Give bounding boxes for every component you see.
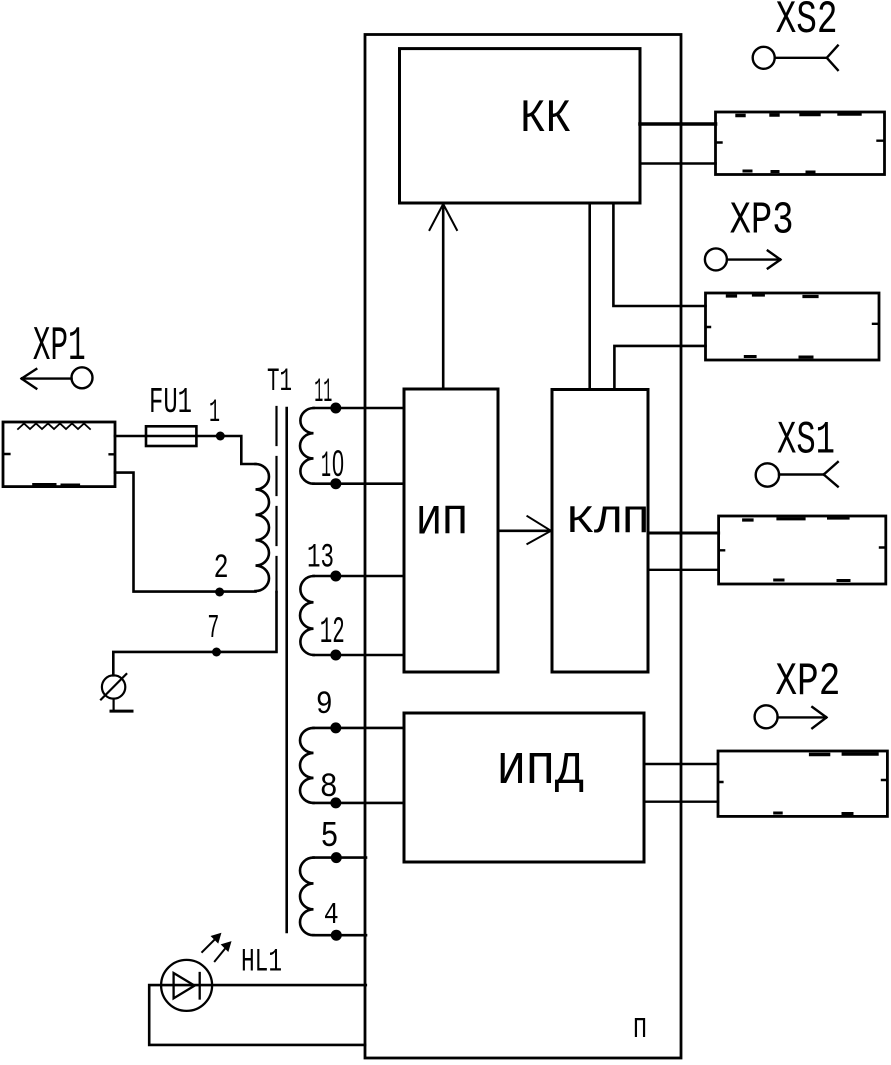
- node pin 4: [331, 930, 342, 941]
- wire screen to node 7 and ground: [113, 592, 276, 675]
- svg-text:1: 1: [209, 394, 220, 431]
- connector cable XP1: [3, 422, 115, 487]
- node pin 12: [330, 650, 341, 661]
- svg-text:7: 7: [207, 610, 219, 647]
- connector symbol XS2: [753, 46, 838, 70]
- svg-text:8: 8: [320, 769, 338, 807]
- svg-text:5: 5: [321, 816, 339, 857]
- wire lamp loop: [149, 985, 366, 1045]
- wire КК to XP3 upper: [613, 203, 705, 306]
- svg-text:ИП: ИП: [416, 499, 468, 547]
- svg-text:0: 0: [332, 443, 344, 484]
- wire tap 10 to ИП: [314, 482, 405, 485]
- wire tap 9 to ИПД: [314, 727, 405, 730]
- svg-text:9: 9: [316, 686, 333, 723]
- light arrows HL1: [202, 934, 231, 962]
- node pin 13: [330, 571, 341, 582]
- wire ИП to КЛП with arrow: [498, 529, 552, 532]
- node 2: [215, 588, 224, 597]
- node 1: [216, 432, 225, 441]
- block КК: [400, 49, 641, 203]
- transformer secondary winding 9-8: [300, 728, 314, 803]
- wire КК to XS2: [640, 122, 716, 126]
- connector cable XS2: [716, 112, 885, 175]
- connector symbol XP3: [705, 248, 781, 270]
- svg-text:2: 2: [214, 550, 229, 588]
- transformer secondary winding 5-4: [300, 858, 314, 936]
- svg-text:XP2: XP2: [775, 656, 840, 708]
- transformer screen (dashed): [275, 407, 277, 592]
- wire КЛП to XP3 lower: [614, 346, 705, 389]
- wire ИПД to XP2: [644, 763, 718, 766]
- wire КЛП to XS1: [648, 532, 718, 535]
- transformer primary winding: [256, 464, 270, 591]
- connector cable XP2: [718, 751, 887, 816]
- wire tap 5 to enclosure: [314, 856, 367, 859]
- node pin 9: [330, 722, 341, 733]
- svg-text:XP1: XP1: [33, 320, 86, 374]
- svg-text:КК: КК: [520, 93, 571, 145]
- wire winding to node 2 and XP1: [115, 473, 256, 592]
- wire КК to КЛП: [588, 203, 591, 389]
- node 7: [212, 648, 221, 657]
- connector cable XP3: [706, 293, 880, 360]
- wire tap 4 to enclosure: [314, 934, 367, 937]
- fuse FU1: [146, 426, 196, 446]
- svg-text:FU1: FU1: [149, 382, 192, 423]
- svg-text:T1: T1: [267, 363, 292, 400]
- block ИПД: [404, 713, 644, 862]
- LED HL1: [161, 960, 212, 1011]
- connector cable XS1: [719, 516, 886, 584]
- svg-text:1: 1: [321, 446, 331, 488]
- svg-text:12: 12: [320, 612, 345, 654]
- wire ИП to КК with arrow: [442, 203, 445, 389]
- wire tap 13 to ИП: [314, 575, 405, 578]
- transformer core: [285, 408, 288, 932]
- transformer secondary winding 11-10: [300, 408, 314, 484]
- node pin 8: [330, 797, 341, 808]
- wire tap 8 to ИПД: [314, 802, 405, 805]
- connector symbol XP1: [22, 367, 93, 388]
- transformer secondary winding 13-12: [300, 576, 313, 655]
- svg-text:ИПД: ИПД: [497, 746, 584, 797]
- svg-text:HL1: HL1: [241, 944, 282, 981]
- block КЛП: [552, 390, 648, 673]
- svg-text:П: П: [633, 1013, 647, 1046]
- connector symbol XP2: [755, 705, 827, 728]
- svg-text:13: 13: [307, 540, 334, 578]
- svg-text:XS2: XS2: [776, 0, 838, 46]
- connector symbol XS1: [756, 462, 838, 487]
- svg-text:11: 11: [314, 374, 332, 412]
- node pin 11: [330, 403, 341, 414]
- block ИП: [404, 389, 498, 672]
- svg-text:XP3: XP3: [730, 196, 794, 247]
- node pin 10: [330, 478, 341, 489]
- node pin 5: [331, 852, 342, 863]
- wire tap 12 to ИП: [314, 654, 405, 657]
- wire XP1 to FU1: [115, 435, 146, 438]
- svg-text:КЛП: КЛП: [567, 500, 650, 544]
- wire FU1 to primary winding: [196, 436, 255, 464]
- svg-text:4: 4: [324, 898, 339, 933]
- chassis ground symbol: [101, 674, 132, 711]
- enclosure П: [365, 35, 681, 1059]
- wire tap 11 to ИП: [314, 407, 405, 410]
- svg-text:XS1: XS1: [777, 414, 835, 466]
